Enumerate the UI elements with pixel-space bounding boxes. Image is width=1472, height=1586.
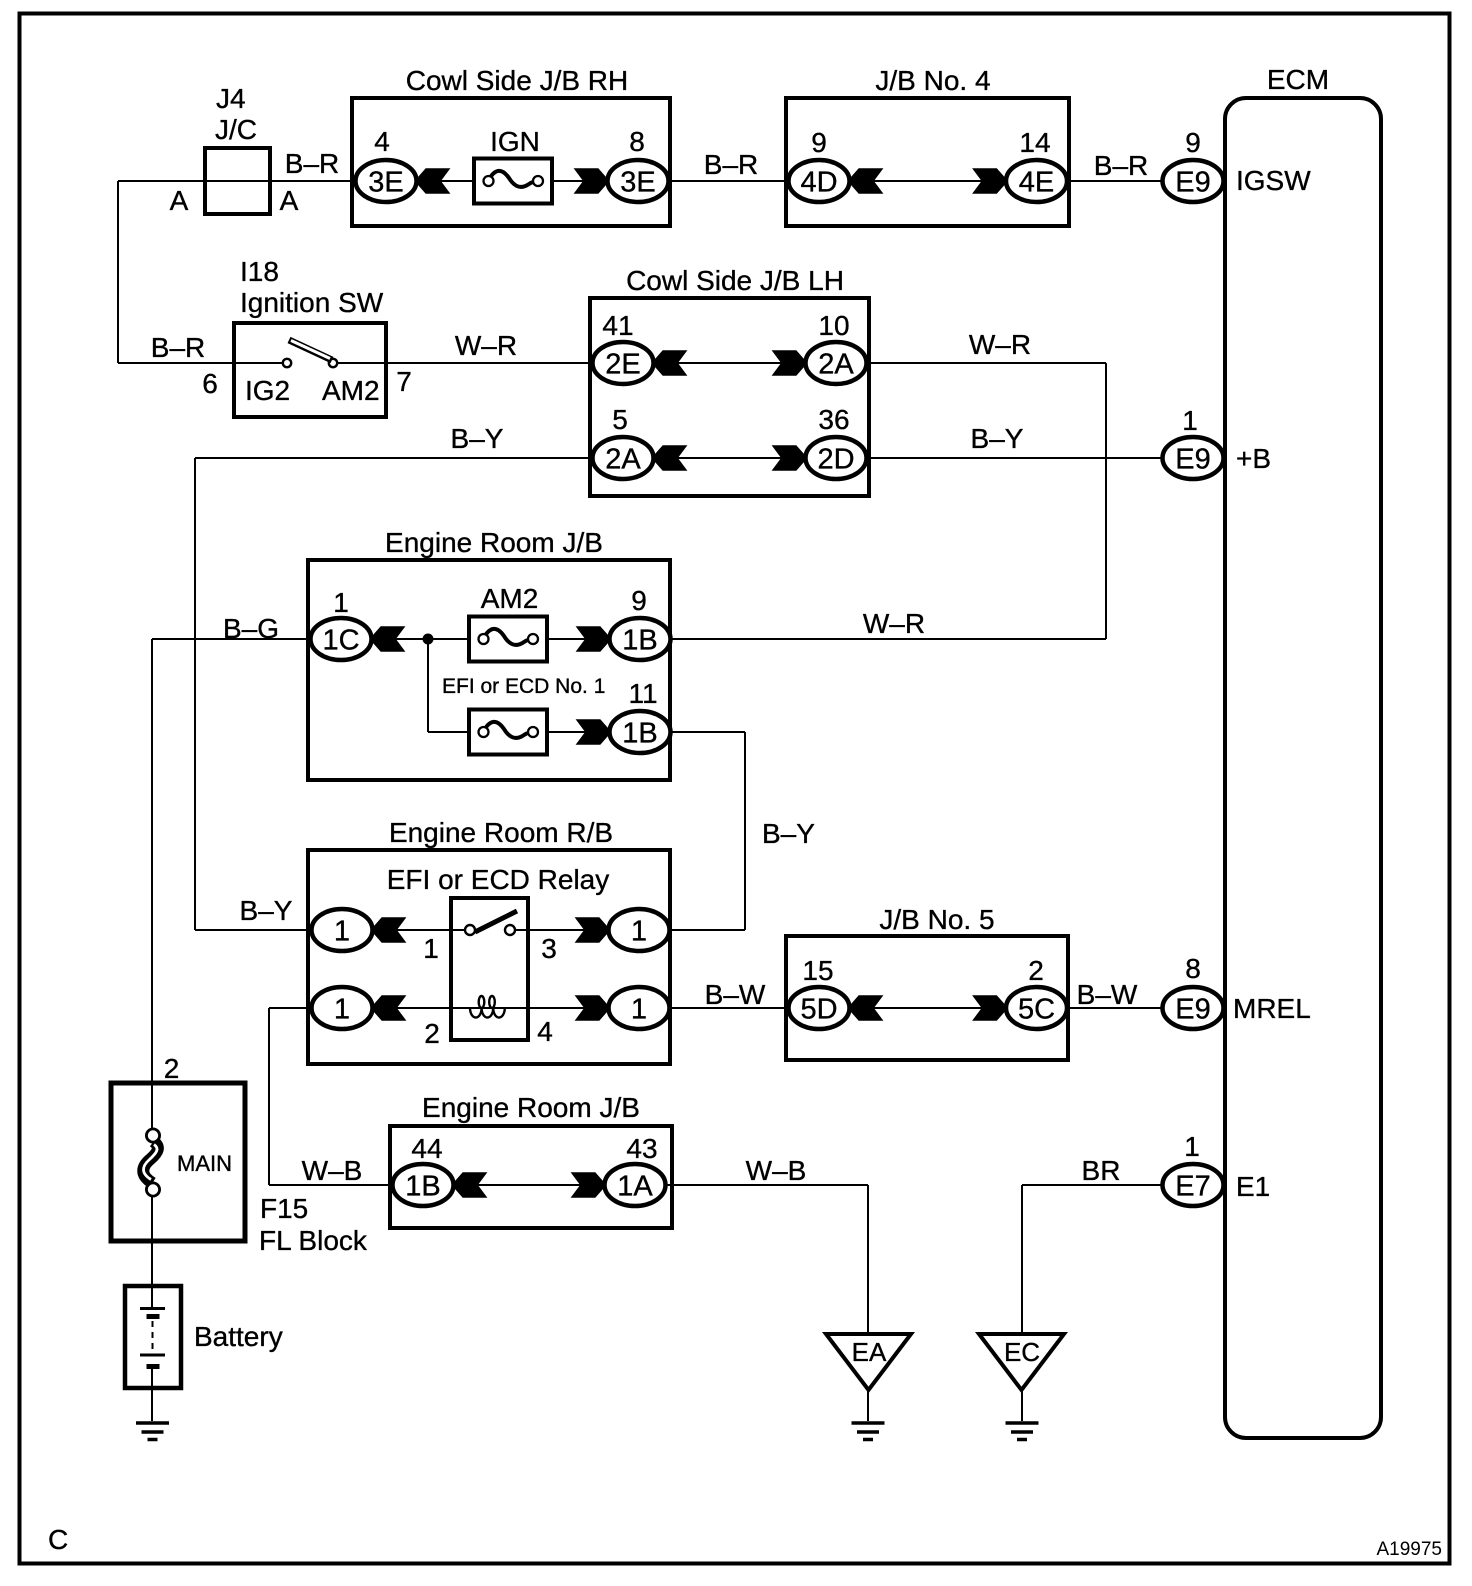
arrow right row1 JB4 <box>972 168 1005 194</box>
svg-text:Cowl Side J/B RH: Cowl Side J/B RH <box>406 65 629 96</box>
svg-text:1B: 1B <box>622 718 657 750</box>
connector oval 2D pin36 <box>806 437 867 479</box>
wire: W-R from AM2 contact to LH J/B and to x=1106 <box>338 362 1106 364</box>
svg-text:B–Y: B–Y <box>762 818 815 849</box>
svg-text:+B: +B <box>1236 443 1271 474</box>
ground EC triangle <box>979 1334 1064 1390</box>
svg-text:1: 1 <box>1182 405 1198 436</box>
MAIN fusible link symbol <box>143 1129 159 1196</box>
svg-text:W–R: W–R <box>455 330 517 361</box>
svg-text:E9: E9 <box>1175 167 1210 199</box>
junction dot at AM2 fuse split <box>423 634 434 645</box>
wire: B-Y row y=458 <box>195 457 1161 459</box>
svg-text:2D: 2D <box>817 444 854 476</box>
connector oval 4E pin14 <box>1006 160 1067 202</box>
wire: EA triangle stem to ground <box>867 1390 869 1421</box>
wire: relay coil row y=1008 to MREL <box>269 1007 1161 1009</box>
svg-text:Cowl Side J/B LH: Cowl Side J/B LH <box>626 265 844 296</box>
svg-text:4D: 4D <box>800 167 837 199</box>
svg-text:J/B No. 4: J/B No. 4 <box>875 65 990 96</box>
svg-text:Battery: Battery <box>194 1321 283 1352</box>
svg-text:5: 5 <box>612 404 628 435</box>
wire: MAIN box internal bottom <box>151 1196 153 1241</box>
svg-text:EFI or ECD No. 1: EFI or ECD No. 1 <box>442 675 605 698</box>
svg-text:3: 3 <box>541 933 557 964</box>
box Engine Room R/B relay <box>308 850 670 1064</box>
svg-text:W–R: W–R <box>863 608 925 639</box>
svg-text:5D: 5D <box>800 994 837 1026</box>
box J/B No. 5 <box>786 936 1068 1060</box>
arrow left LH row2 <box>654 445 687 471</box>
svg-text:I18: I18 <box>240 256 279 287</box>
svg-text:W–B: W–B <box>746 1155 807 1186</box>
connector oval 1A pin43 <box>605 1164 666 1206</box>
arrow right row1 RH <box>574 168 607 194</box>
svg-text:9: 9 <box>811 127 827 158</box>
connector oval E9 pin9 IGSW <box>1163 160 1224 202</box>
connector oval E9 pin1 +B <box>1163 437 1224 479</box>
svg-text:B–W: B–W <box>705 979 766 1010</box>
fuse IGN <box>474 159 552 204</box>
svg-text:B–Y: B–Y <box>240 895 293 926</box>
svg-text:Engine Room R/B: Engine Room R/B <box>389 817 613 848</box>
svg-text:1C: 1C <box>322 625 359 657</box>
svg-text:2A: 2A <box>605 444 641 476</box>
svg-text:Engine Room J/B: Engine Room J/B <box>422 1092 640 1123</box>
svg-text:A: A <box>280 185 299 216</box>
wire: vertical x=1022 down to EC triangle <box>1021 1185 1023 1334</box>
svg-text:B–R: B–R <box>151 332 205 363</box>
wire: vertical x=152 down to MAIN fusible link <box>151 639 153 1083</box>
svg-text:9: 9 <box>631 585 647 616</box>
svg-text:1: 1 <box>631 994 647 1026</box>
svg-text:1B: 1B <box>405 1171 440 1203</box>
svg-text:MAIN: MAIN <box>177 1151 232 1176</box>
svg-text:1: 1 <box>334 994 350 1026</box>
svg-text:B–R: B–R <box>1094 150 1148 181</box>
svg-text:B–Y: B–Y <box>451 423 504 454</box>
svg-text:1: 1 <box>423 933 439 964</box>
connector oval 5C pin2 <box>1006 987 1067 1029</box>
svg-text:4: 4 <box>374 126 390 157</box>
arrow left relay row2 <box>373 995 406 1021</box>
svg-text:44: 44 <box>411 1133 442 1164</box>
svg-text:1: 1 <box>631 916 647 948</box>
arrow left LH row1 <box>654 350 687 376</box>
svg-text:Engine Room J/B: Engine Room J/B <box>385 527 603 558</box>
box Cowl Side J/B RH <box>352 98 670 226</box>
connector oval 1B pin9 <box>610 618 671 660</box>
fuse AM2 <box>469 617 547 662</box>
svg-text:8: 8 <box>1185 953 1201 984</box>
arrow left ERJB row1 <box>372 626 405 652</box>
svg-text:1: 1 <box>334 916 350 948</box>
connector oval 5D pin15 <box>789 987 850 1029</box>
wire: relay contact row y=930 right part <box>516 929 745 931</box>
svg-text:E9: E9 <box>1175 994 1210 1026</box>
svg-text:8: 8 <box>629 126 645 157</box>
ground symbol under EC <box>1006 1423 1039 1440</box>
svg-text:J4: J4 <box>216 83 246 114</box>
svg-text:B–R: B–R <box>704 149 758 180</box>
connector oval relay pin2 left <box>312 987 373 1029</box>
svg-text:4: 4 <box>537 1016 553 1047</box>
arrow left row1 RH <box>417 168 450 194</box>
connector oval E9 pin8 MREL <box>1163 987 1224 1029</box>
relay coil <box>470 996 505 1018</box>
connector oval relay pin3 right <box>609 909 670 951</box>
wire: vertical x=745 B-Y down to relay contact output <box>744 732 746 930</box>
ignition switch contacts <box>283 340 337 367</box>
svg-text:2: 2 <box>164 1053 180 1084</box>
arrow left row1 JB4 <box>850 168 883 194</box>
svg-text:J/B No. 5: J/B No. 5 <box>879 904 994 935</box>
arrow right JB5 <box>972 995 1005 1021</box>
svg-text:C: C <box>48 1524 68 1555</box>
svg-text:BR: BR <box>1082 1155 1121 1186</box>
wire: MAIN box internal top <box>151 1083 153 1129</box>
connector oval 3E pin4 <box>356 160 417 202</box>
svg-text:1A: 1A <box>617 1171 653 1203</box>
svg-text:14: 14 <box>1019 127 1050 158</box>
svg-text:B–G: B–G <box>223 613 279 644</box>
wire: EC triangle stem to ground <box>1021 1390 1023 1421</box>
fuse EFI or ECD No. 1 <box>469 710 547 755</box>
wire: vertical x=428 from junction to fuse No.1 row <box>427 639 429 732</box>
connector oval relay pin1 left <box>312 909 373 951</box>
svg-text:6: 6 <box>202 368 218 399</box>
svg-text:11: 11 <box>628 678 657 709</box>
MAIN fusible link box <box>111 1083 245 1241</box>
wire: EFI or ECD No.1 row y=732 <box>428 731 745 733</box>
svg-text:15: 15 <box>802 955 833 986</box>
svg-text:FL Block: FL Block <box>259 1225 368 1256</box>
wire: relay contact row y=930 left part <box>195 929 464 931</box>
svg-text:A19975: A19975 <box>1376 1539 1442 1560</box>
svg-text:4E: 4E <box>1019 167 1054 199</box>
wire: vertical x=269 down to W-B row <box>268 1008 270 1185</box>
wire: vertical x=1106 W-R down <box>1105 363 1107 639</box>
ground EA triangle <box>826 1334 911 1390</box>
arrow right relay row1 <box>575 917 608 943</box>
svg-text:2: 2 <box>1028 955 1044 986</box>
svg-text:Ignition SW: Ignition SW <box>240 287 384 318</box>
svg-text:W–R: W–R <box>969 329 1031 360</box>
svg-text:36: 36 <box>818 404 849 435</box>
relay inner box <box>451 898 528 1040</box>
connector oval 1C pin1 <box>311 618 372 660</box>
svg-text:MREL: MREL <box>1233 993 1311 1024</box>
svg-text:J/C: J/C <box>215 114 257 145</box>
svg-text:A: A <box>170 185 189 216</box>
ground below battery <box>136 1423 169 1440</box>
svg-text:EA: EA <box>852 1337 887 1367</box>
svg-text:1: 1 <box>1184 1131 1200 1162</box>
wire: B-G row y=639 <box>152 638 1106 640</box>
ground symbol under EA <box>852 1423 885 1440</box>
arrow right relay row2 <box>575 995 608 1021</box>
box Cowl Side J/B LH <box>590 298 869 496</box>
ignition switch I18 box <box>234 323 386 417</box>
svg-text:AM2: AM2 <box>481 583 539 614</box>
junction connector J4 J/C box <box>205 148 270 214</box>
svg-text:43: 43 <box>626 1133 657 1164</box>
wire: B-R into ignition SW y=363 <box>118 362 283 364</box>
wire: top row B-R y=181 <box>118 180 1161 182</box>
svg-text:IG2: IG2 <box>245 375 290 406</box>
svg-text:E7: E7 <box>1175 1171 1210 1203</box>
arrow left ERJB lower <box>454 1172 487 1198</box>
arrow right ERJB row1 <box>576 626 609 652</box>
svg-text:3E: 3E <box>368 167 403 199</box>
wire: vertical x=195 B-Y down to relay <box>194 458 196 930</box>
connector oval relay pin4 right <box>609 987 670 1029</box>
svg-text:E9: E9 <box>1175 444 1210 476</box>
svg-text:W–B: W–B <box>302 1155 363 1186</box>
connector oval 1B pin44 <box>393 1164 454 1206</box>
connector oval 1B pin11 <box>610 711 671 753</box>
svg-text:IGSW: IGSW <box>1236 165 1311 196</box>
svg-text:E1: E1 <box>1236 1171 1270 1202</box>
svg-text:2E: 2E <box>605 349 640 381</box>
svg-text:2A: 2A <box>818 349 854 381</box>
arrow right ERJB lower <box>571 1172 604 1198</box>
svg-text:IGN: IGN <box>490 126 540 157</box>
svg-text:B–W: B–W <box>1077 979 1138 1010</box>
battery <box>125 1286 181 1388</box>
box J/B No. 4 <box>786 98 1069 226</box>
svg-text:5C: 5C <box>1018 994 1055 1026</box>
connector oval 2A pin5 <box>593 437 654 479</box>
svg-text:B–R: B–R <box>285 148 339 179</box>
svg-text:9: 9 <box>1185 127 1201 158</box>
svg-text:41: 41 <box>602 310 633 341</box>
box Engine Room J/B lower <box>390 1126 672 1228</box>
svg-text:AM2: AM2 <box>322 375 380 406</box>
arrow right LH row1 <box>772 350 805 376</box>
wire: vertical from J/C A to ignition SW <box>117 181 119 363</box>
wire: MAIN to battery <box>151 1241 153 1286</box>
svg-text:10: 10 <box>818 310 849 341</box>
svg-text:1: 1 <box>333 587 349 618</box>
arrow right ERJB row2 <box>576 719 609 745</box>
wire: vertical x=868 down to EA ground <box>867 1185 869 1334</box>
svg-text:2: 2 <box>424 1018 440 1049</box>
connector oval 3E pin8 <box>608 160 669 202</box>
connector oval 2A pin10 <box>806 342 867 384</box>
connector oval E7 pin1 E1 <box>1163 1164 1224 1206</box>
arrow left relay row1 <box>373 917 406 943</box>
svg-text:ECM: ECM <box>1267 64 1329 95</box>
wire: BR wire from EC to E7 y=1185 <box>1022 1184 1161 1186</box>
arrow left JB5 <box>850 995 883 1021</box>
relay contact switch <box>465 911 517 935</box>
ECM box <box>1225 98 1381 1438</box>
svg-text:7: 7 <box>396 366 412 397</box>
box Engine Room J/B upper <box>308 560 670 780</box>
svg-text:B–Y: B–Y <box>971 423 1024 454</box>
svg-text:EFI or ECD Relay: EFI or ECD Relay <box>387 864 610 895</box>
svg-text:F15: F15 <box>260 1193 308 1224</box>
wire: W-B row y=1185 <box>269 1184 868 1186</box>
svg-text:3E: 3E <box>620 167 655 199</box>
connector oval 2E pin41 <box>593 342 654 384</box>
svg-text:1B: 1B <box>622 625 657 657</box>
connector oval 4D pin9 <box>789 160 850 202</box>
svg-text:EC: EC <box>1004 1337 1040 1367</box>
arrow right LH row2 <box>772 445 805 471</box>
wire: battery to ground <box>151 1388 153 1421</box>
